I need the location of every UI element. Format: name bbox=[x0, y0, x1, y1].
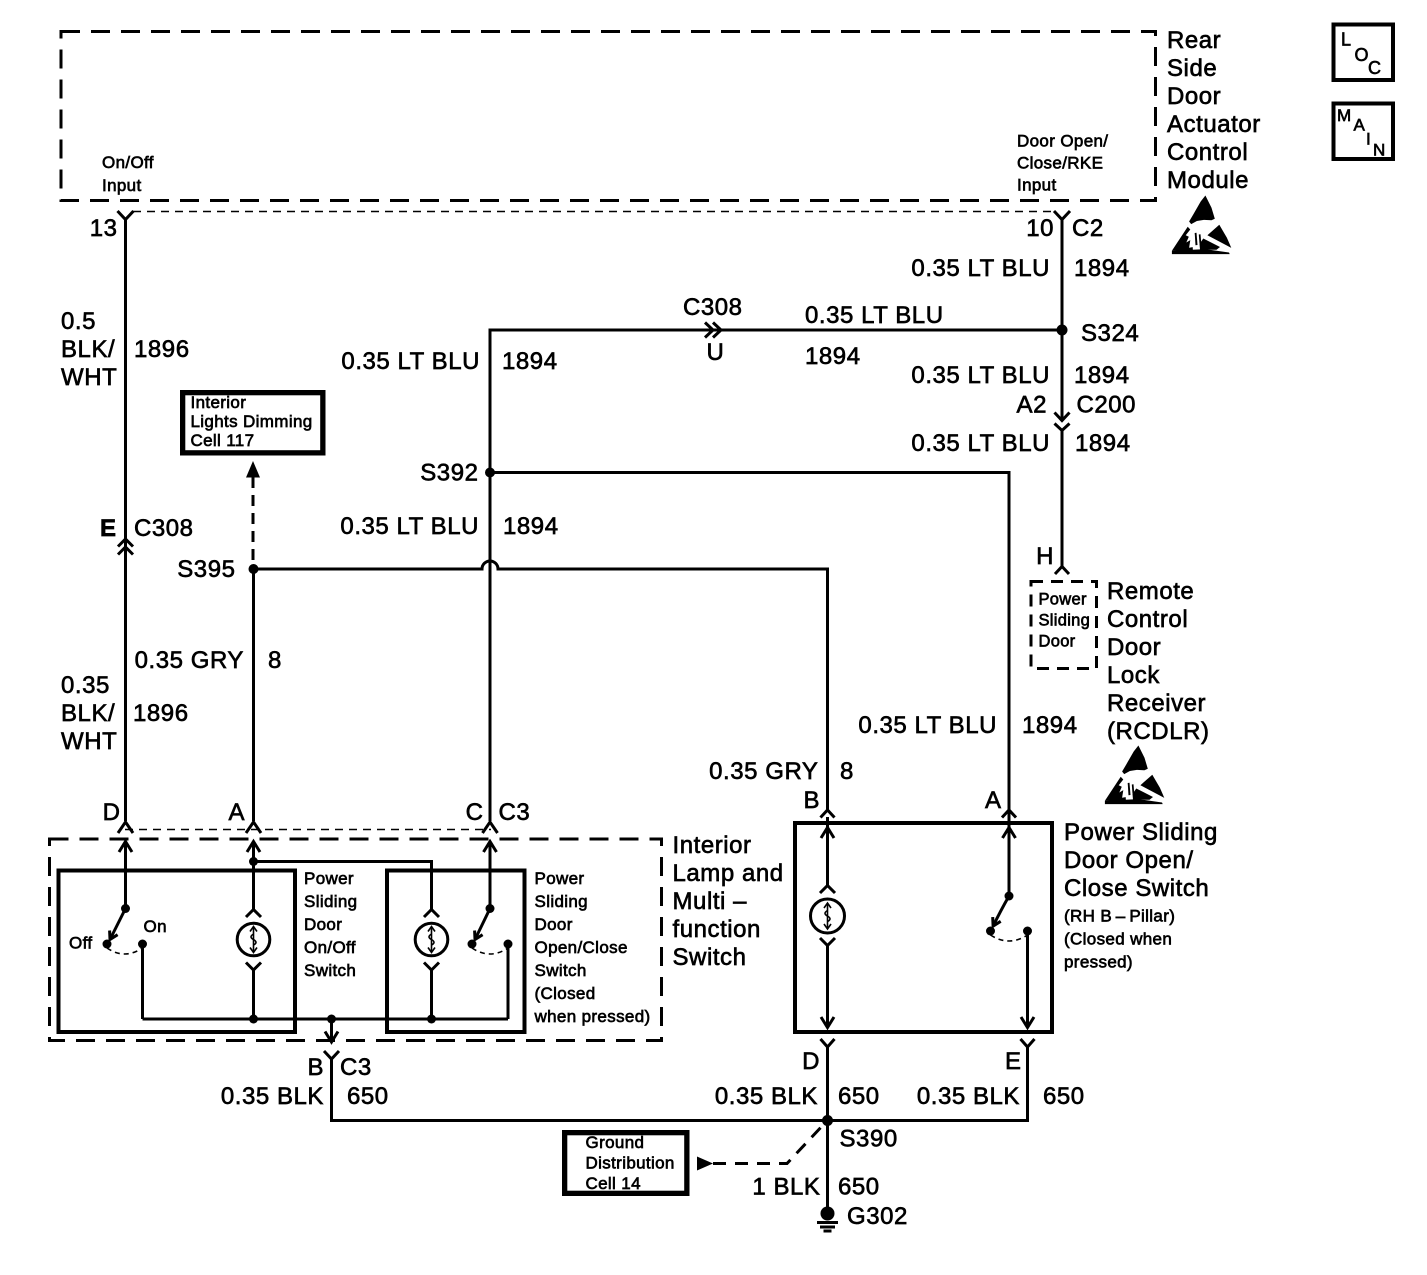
label Power Sliding Door Open/Close Switch (RH B-Pillar) bbox=[1064, 819, 1218, 972]
svg-text:1894: 1894 bbox=[503, 513, 559, 540]
dashed reference arrow Ground Distribution to S390 bbox=[697, 1124, 824, 1171]
wire 1894 vertical (connector C200 to pin H) bbox=[1061, 431, 1064, 567]
svg-text:Power SlidingDoor Open/Close S: Power SlidingDoor Open/Close Switch bbox=[1064, 819, 1218, 902]
svg-text:PowerSlidingDoor: PowerSlidingDoor bbox=[1039, 591, 1091, 651]
svg-text:C308: C308 bbox=[683, 294, 743, 321]
svg-text:L: L bbox=[1341, 30, 1351, 50]
svg-text:8: 8 bbox=[840, 758, 854, 785]
svg-text:C308: C308 bbox=[134, 515, 194, 542]
wire 1896 BLK/WHT vertical (pin 13 to pin D) bbox=[124, 220, 127, 822]
pin 13 connector Y bbox=[118, 211, 134, 220]
junction node on A wire bbox=[249, 857, 258, 866]
splice S390 bbox=[822, 1115, 833, 1126]
MAIN reference box bbox=[1334, 104, 1394, 160]
pin H connector chevron bbox=[1055, 567, 1069, 575]
svg-text:0.5BLK/WHT: 0.5BLK/WHT bbox=[61, 308, 117, 391]
power sliding door open/close switch box (RH B-Pillar) bbox=[795, 823, 1052, 1032]
wire A entry with up arrow bbox=[247, 842, 260, 911]
LOC letters bbox=[1341, 30, 1381, 79]
svg-text:RearSideDoorActuatorControlMod: RearSideDoorActuatorControlModule bbox=[1167, 27, 1261, 194]
pin C connector Y bbox=[483, 822, 498, 833]
svg-text:1896: 1896 bbox=[134, 336, 190, 363]
connector line C2 (thin dashed) bbox=[133, 211, 1055, 213]
pillar switch arm bbox=[993, 896, 1009, 926]
wire B inside box with up arrow bbox=[821, 817, 834, 886]
wire 8 GRY horizontal (S395 to right box pin B, with hop) bbox=[254, 561, 828, 810]
wire D entry with up arrow bbox=[119, 842, 132, 909]
open/close switch arm bbox=[475, 909, 490, 940]
svg-text:S392: S392 bbox=[420, 460, 478, 487]
svg-text:A: A bbox=[985, 787, 1002, 814]
svg-text:0.35 GRY: 0.35 GRY bbox=[135, 647, 244, 674]
junction node B drop bbox=[327, 1015, 336, 1024]
svg-text:C3: C3 bbox=[499, 799, 531, 826]
module box: Rear Side Door Actuator Control Module (dashed) bbox=[61, 32, 1156, 201]
off contact bbox=[103, 940, 112, 949]
junction node lamp 2 to rail bbox=[427, 1015, 436, 1024]
svg-text:0.35BLK/WHT: 0.35BLK/WHT bbox=[61, 672, 117, 755]
up arrow on A wire inside box bbox=[1003, 828, 1016, 839]
wire 1894 horizontal (corner to S324 via C308) bbox=[490, 330, 1062, 569]
splice S395 bbox=[249, 564, 259, 574]
MAIN letters bbox=[1337, 106, 1385, 160]
pillar switch stationary contact bbox=[1023, 927, 1032, 936]
cell box: Ground Distribution Cell 14 bbox=[564, 1132, 688, 1194]
lamp 1 (dome lamp) bbox=[237, 910, 270, 971]
open/close stationary contact bbox=[504, 940, 513, 949]
svg-text:1894: 1894 bbox=[1075, 430, 1131, 457]
svg-text:1894: 1894 bbox=[805, 343, 861, 370]
pin E connector Y (right box) bbox=[1021, 1039, 1035, 1047]
lamp 2 lower wire bbox=[430, 970, 433, 1019]
on/off switch pivot bbox=[121, 904, 130, 913]
svg-text:C3: C3 bbox=[340, 1054, 372, 1081]
svg-text:10: 10 bbox=[1026, 215, 1054, 242]
wire 1894 vertical (S392 wire down to pin C) bbox=[489, 473, 492, 822]
lamp 2 (dome lamp) bbox=[415, 910, 448, 971]
on contact bbox=[138, 940, 147, 949]
svg-text:1896: 1896 bbox=[133, 700, 189, 727]
pin A connector chevron (right box) bbox=[1002, 810, 1016, 818]
wire from on contact to bottom rail bbox=[141, 944, 144, 1019]
pin D connector Y (right box) bbox=[821, 1039, 835, 1047]
svg-text:0.35 GRY: 0.35 GRY bbox=[709, 758, 818, 785]
svg-text:1894: 1894 bbox=[1074, 255, 1130, 282]
wire B drop with down arrow bbox=[325, 1019, 338, 1042]
svg-text:0.35 BLK: 0.35 BLK bbox=[917, 1083, 1020, 1110]
switch throw arc (dashed) bbox=[107, 948, 143, 954]
cell box: Interior Lights Dimming Cell 117 bbox=[182, 392, 324, 454]
svg-text:I: I bbox=[1366, 130, 1371, 149]
svg-text:C: C bbox=[466, 799, 484, 826]
svg-text:0.35 BLK: 0.35 BLK bbox=[715, 1083, 818, 1110]
svg-text:(RH B – Pillar)(Closed whenpre: (RH B – Pillar)(Closed whenpressed) bbox=[1064, 907, 1175, 972]
branch wire to lamp 2 bbox=[254, 862, 432, 911]
pin B connector Y (C3) bbox=[324, 1051, 339, 1059]
svg-text:650: 650 bbox=[838, 1174, 880, 1201]
open/close switch inner box bbox=[387, 871, 525, 1033]
svg-text:A2: A2 bbox=[1017, 392, 1047, 419]
pin B connector chevron (right box) bbox=[821, 810, 835, 818]
svg-text:N: N bbox=[1373, 141, 1385, 160]
svg-text:650: 650 bbox=[347, 1083, 389, 1110]
svg-text:B: B bbox=[307, 1054, 324, 1081]
svg-text:E: E bbox=[1005, 1048, 1022, 1075]
svg-text:C2: C2 bbox=[1072, 215, 1104, 242]
svg-text:H: H bbox=[1036, 543, 1054, 570]
svg-text:0.35 LT BLU: 0.35 LT BLU bbox=[858, 712, 997, 739]
open/close moving contact bbox=[468, 940, 477, 949]
wire pin D to S390 bbox=[826, 1047, 829, 1121]
bottom rail wire bbox=[143, 1018, 509, 1021]
svg-text:1894: 1894 bbox=[502, 348, 558, 375]
svg-text:1 BLK: 1 BLK bbox=[752, 1174, 820, 1201]
svg-text:B: B bbox=[803, 787, 820, 814]
svg-text:Door Open/Close/RKEInput: Door Open/Close/RKEInput bbox=[1017, 132, 1108, 195]
ESD warning symbol (top right) bbox=[1172, 196, 1231, 255]
LOC reference box bbox=[1334, 25, 1394, 81]
pillar switch pivot bbox=[1005, 892, 1014, 901]
svg-text:A: A bbox=[228, 799, 245, 826]
dashed reference arrow to Interior Lights Dimming bbox=[246, 461, 260, 566]
lamp 3 (switch illumination lamp) bbox=[811, 886, 845, 946]
svg-text:0.35 LT BLU: 0.35 LT BLU bbox=[911, 255, 1050, 282]
on/off switch inner box bbox=[59, 871, 296, 1033]
svg-text:E: E bbox=[100, 515, 117, 542]
pin A connector Y bbox=[246, 822, 261, 833]
wire 8 GRY vertical (S395 to pin A) bbox=[252, 569, 255, 821]
connector E C308 chevrons bbox=[118, 539, 133, 555]
open/close switch pivot bbox=[486, 904, 495, 913]
svg-text:S324: S324 bbox=[1081, 320, 1139, 347]
svg-text:O: O bbox=[1355, 45, 1369, 65]
pillar switch moving contact bbox=[986, 927, 995, 936]
svg-text:C200: C200 bbox=[1077, 392, 1137, 419]
svg-text:G302: G302 bbox=[847, 1203, 908, 1230]
svg-text:0.35 LT BLU: 0.35 LT BLU bbox=[805, 302, 944, 329]
ground G302 bbox=[817, 1207, 838, 1232]
connector C3 line (thin dashed) bbox=[125, 829, 491, 831]
svg-text:0.35 BLK: 0.35 BLK bbox=[221, 1083, 324, 1110]
svg-text:D: D bbox=[802, 1048, 820, 1075]
svg-text:InteriorLamp andMulti –functio: InteriorLamp andMulti –functionSwitch bbox=[673, 832, 784, 971]
svg-text:InteriorLights DimmingCell 117: InteriorLights DimmingCell 117 bbox=[191, 393, 313, 450]
svg-text:1894: 1894 bbox=[1022, 712, 1078, 739]
svg-text:U: U bbox=[707, 339, 725, 366]
svg-text:A: A bbox=[1354, 116, 1366, 135]
wire lamp 3 down with down arrow bbox=[821, 946, 834, 1028]
svg-text:650: 650 bbox=[838, 1083, 880, 1110]
svg-text:0.35 LT BLU: 0.35 LT BLU bbox=[911, 362, 1050, 389]
wire from stationary contact to bottom rail bbox=[507, 944, 510, 1019]
interior lamp switch outer box (dashed) bbox=[50, 839, 662, 1041]
pin 10 connector Y bbox=[1054, 211, 1070, 220]
pillar switch throw arc (dashed) bbox=[991, 935, 1028, 941]
wire stationary contact down with down arrow bbox=[1021, 931, 1034, 1028]
svg-text:D: D bbox=[103, 799, 121, 826]
junction node lamp 1 to rail bbox=[249, 1015, 258, 1024]
connector C200 arrow and chevron bbox=[1055, 413, 1070, 431]
svg-text:Off: Off bbox=[69, 934, 92, 953]
svg-text:On: On bbox=[144, 917, 167, 936]
svg-text:S390: S390 bbox=[840, 1126, 898, 1153]
svg-text:M: M bbox=[1337, 106, 1351, 125]
svg-text:8: 8 bbox=[268, 647, 282, 674]
wire 650 BLK to ground bbox=[826, 1121, 829, 1208]
svg-text:GroundDistributionCell 14: GroundDistributionCell 14 bbox=[586, 1133, 675, 1193]
wire 650 BLK from pin B bbox=[332, 1059, 828, 1121]
svg-text:0.35 LT BLU: 0.35 LT BLU bbox=[340, 513, 479, 540]
svg-text:650: 650 bbox=[1043, 1083, 1085, 1110]
svg-text:0.35 LT BLU: 0.35 LT BLU bbox=[341, 348, 480, 375]
svg-text:S395: S395 bbox=[177, 556, 235, 583]
wire 1894 vertical (pin 10 to connector C200) bbox=[1061, 220, 1064, 421]
connector C308 chevrons (in-line, on horizontal wire) bbox=[705, 323, 721, 338]
wire pin E down and left to S390 bbox=[828, 1047, 1028, 1121]
wire A inside box down to pivot bbox=[1008, 810, 1011, 896]
splice S392 bbox=[485, 468, 495, 478]
svg-text:0.35 LT BLU: 0.35 LT BLU bbox=[911, 430, 1050, 457]
svg-text:RemoteControlDoorLockReceiver(: RemoteControlDoorLockReceiver(RCDLR) bbox=[1107, 578, 1210, 745]
svg-text:C: C bbox=[1368, 58, 1381, 78]
wire C entry with up arrow bbox=[484, 842, 497, 909]
open/close throw arc (dashed) bbox=[472, 948, 508, 954]
lamp 1 lower wire bbox=[252, 970, 255, 1019]
svg-text:PowerSlidingDoorOn/OffSwitch: PowerSlidingDoorOn/OffSwitch bbox=[304, 869, 357, 980]
wire 1894 horizontal (S392 to right box pin A) bbox=[490, 473, 1009, 811]
ESD warning symbol (middle right) bbox=[1105, 746, 1164, 805]
svg-text:13: 13 bbox=[90, 215, 118, 242]
svg-text:On/OffInput: On/OffInput bbox=[102, 153, 154, 195]
on/off switch arm bbox=[110, 909, 126, 940]
cell box: Power Sliding Door (dashed) bbox=[1031, 582, 1097, 669]
pin D connector Y bbox=[118, 822, 133, 833]
svg-text:PowerSlidingDoorOpen/CloseSwit: PowerSlidingDoorOpen/CloseSwitch(Closedw… bbox=[534, 869, 651, 1026]
svg-text:1894: 1894 bbox=[1074, 362, 1130, 389]
splice S324 bbox=[1057, 325, 1068, 336]
